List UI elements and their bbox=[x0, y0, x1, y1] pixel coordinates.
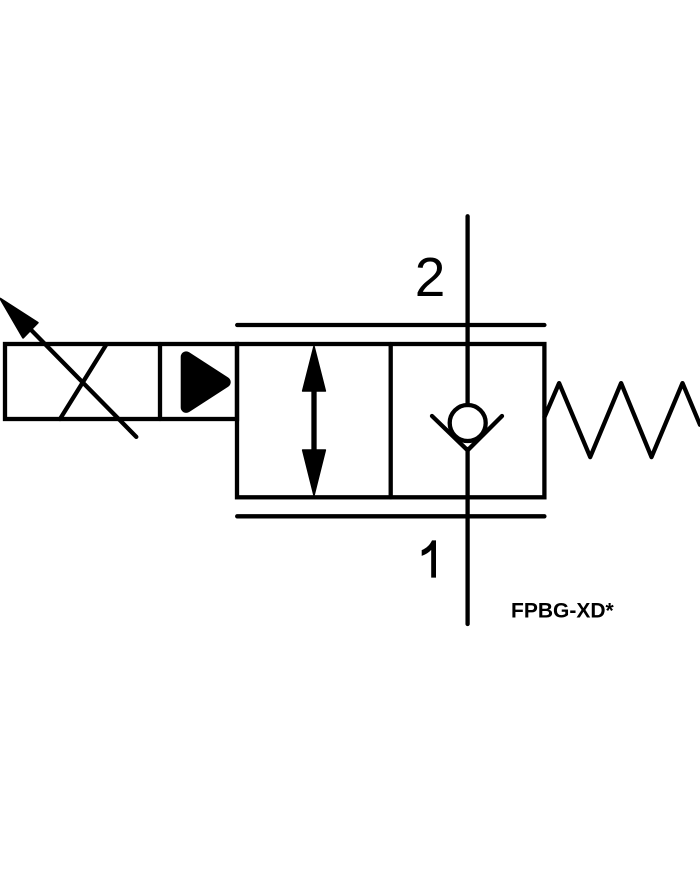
proportional adjustment arrow shaft bbox=[18, 317, 136, 437]
port label 1 bbox=[422, 540, 436, 577]
proportional adjustment arrowhead bbox=[0, 299, 37, 338]
solenoid X stroke bbox=[60, 345, 106, 419]
valve body internal divider bbox=[389, 344, 393, 497]
pilot triangle (solenoid actuation) bbox=[186, 357, 225, 408]
svg-text:2: 2 bbox=[415, 246, 446, 308]
solenoid box divider bbox=[158, 344, 162, 419]
wire: port 1 line (bottom horizontal gallery line) bbox=[237, 514, 544, 518]
svg-text:FPBG-XD*: FPBG-XD* bbox=[511, 600, 615, 623]
spring bbox=[545, 383, 700, 457]
wire: vertical flow line lower segment (port 1) bbox=[465, 449, 469, 624]
valve main body envelope bbox=[237, 344, 544, 497]
wire: port 2 line (top horizontal gallery line) bbox=[237, 323, 544, 327]
double-headed flow arrow in left body cell bbox=[303, 346, 326, 495]
check valve circle bbox=[450, 405, 486, 441]
wire: vertical flow line upper segment (port 2) bbox=[465, 216, 469, 405]
check valve seat V bbox=[432, 416, 502, 450]
solenoid box (proportional solenoid) bbox=[5, 344, 237, 419]
